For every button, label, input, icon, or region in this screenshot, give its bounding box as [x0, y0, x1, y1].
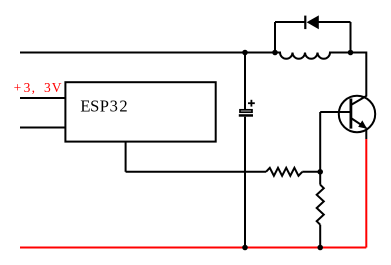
inductor L1 — [275, 53, 351, 59]
wire cap branch bottom — [244, 117, 246, 248]
diode D1 cathode bar — [304, 16, 306, 30]
wire ESP32 pin2 — [20, 127, 65, 129]
node junction cap-ground — [242, 245, 248, 251]
wire ground rail red — [20, 247, 366, 249]
node junction inductor-right — [348, 50, 354, 56]
svg-text:ESP32: ESP32 — [80, 97, 127, 116]
wire base vertical — [319, 112, 321, 172]
node junction inductor-left — [272, 50, 278, 56]
resistor R2 — [317, 185, 324, 225]
resistor R1 — [266, 168, 302, 176]
node junction R2-ground — [317, 245, 323, 251]
node junction base/R1/R2 — [317, 169, 323, 175]
IC U1 ESP32 box — [65, 82, 215, 141]
wire R1 left lead from ESP32 — [126, 171, 266, 173]
wire base lead — [320, 111, 351, 113]
wire cap branch top — [244, 53, 246, 110]
wire ESP32 gpio down — [125, 142, 127, 172]
wire R2 top lead — [319, 172, 321, 185]
node junction cap-branch — [242, 50, 248, 56]
transistor Q1 collector diagonal — [351, 96, 366, 105]
wire R1 right lead — [302, 171, 320, 173]
wire ESP32 pin1 — [20, 97, 65, 99]
wire diode-loop top-left — [275, 21, 305, 23]
transistor Q1 circle — [339, 96, 375, 132]
wire top rail — [20, 52, 275, 54]
wire collector feed — [351, 53, 367, 97]
svg-text:+3, 3V: +3, 3V — [14, 80, 62, 95]
wire emitter return red — [365, 139, 367, 248]
wire diode-loop left vertical — [274, 22, 276, 53]
capacitor C1 top plate — [240, 110, 252, 112]
capacitor C1 bottom plate — [239, 114, 253, 117]
transistor Q1 emitter arrow — [358, 120, 367, 128]
transistor Q1 emitter diagonal — [351, 118, 366, 128]
capacitor C1 plus sign — [248, 100, 255, 107]
wire emitter black stub — [365, 130, 367, 140]
wire diode-loop right vertical — [350, 22, 352, 53]
wire diode-loop top-right — [319, 21, 351, 23]
wire R2 bottom lead — [319, 225, 321, 248]
diode D1 triangle — [307, 15, 319, 29]
transistor Q1 base bar — [349, 99, 352, 129]
